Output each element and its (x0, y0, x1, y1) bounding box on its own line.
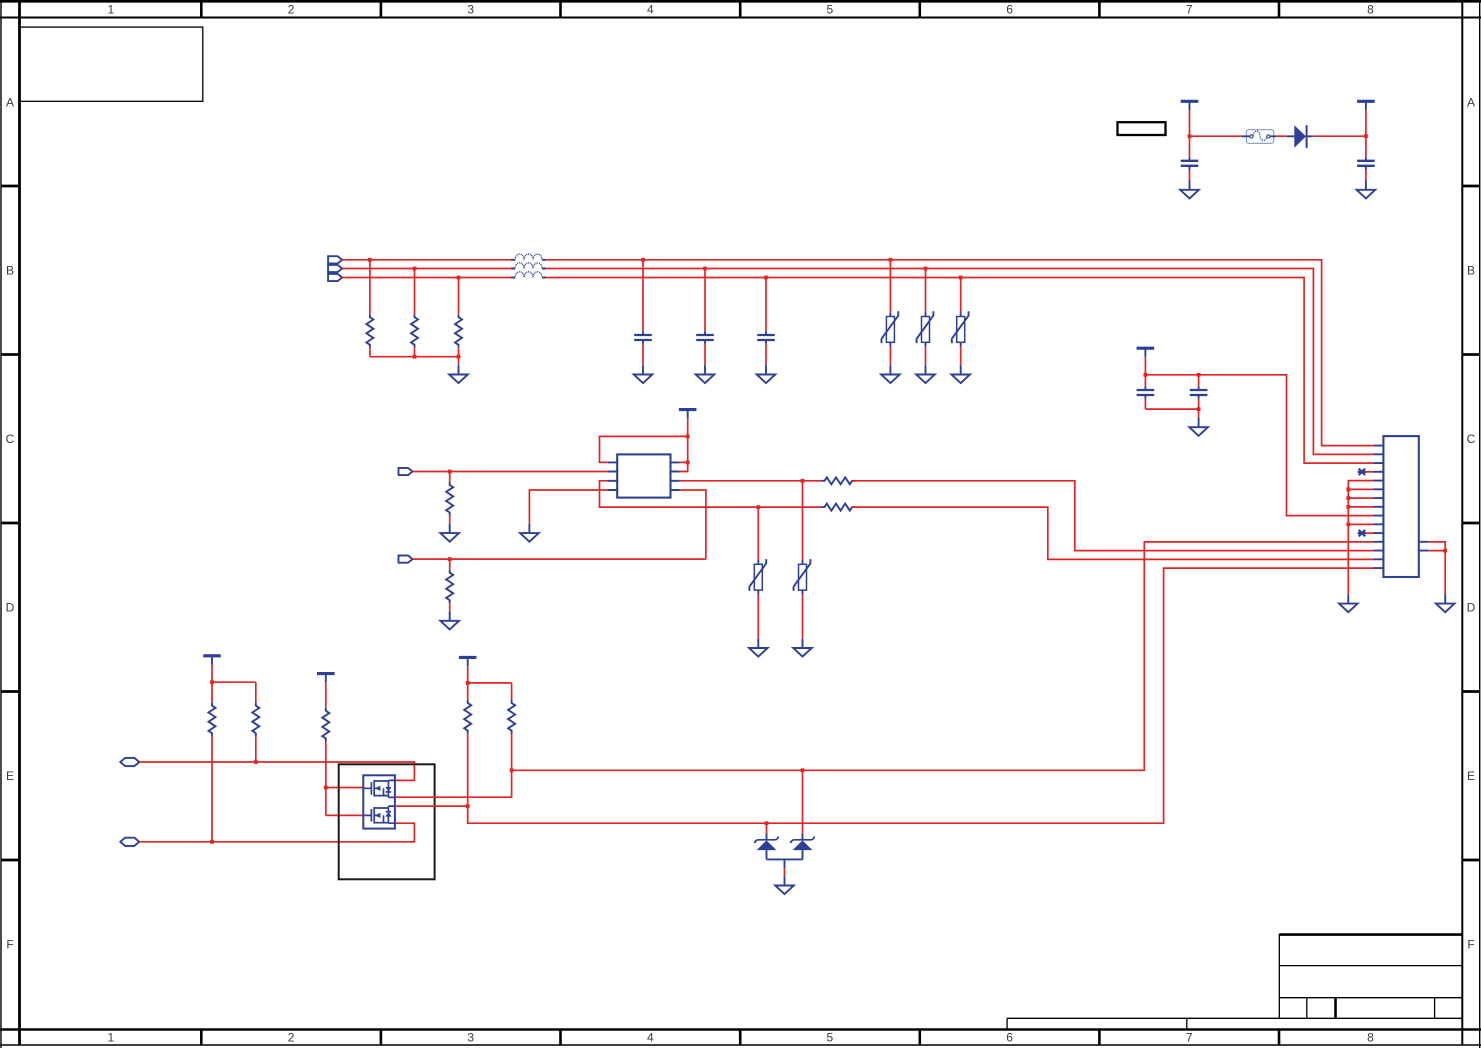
varistor RV2 (916, 311, 933, 347)
op-amp U1 body (617, 454, 670, 497)
junction (1443, 549, 1447, 553)
ground (1357, 181, 1376, 199)
inductor L1 (511, 254, 546, 260)
junction (801, 479, 805, 483)
wire phase3 (546, 278, 1373, 464)
wire phase1 (546, 260, 1373, 446)
resistor R5 (822, 477, 856, 484)
svg-text:8: 8 (1367, 1031, 1374, 1045)
ground (1189, 418, 1208, 436)
junction (210, 680, 214, 684)
wire (802, 770, 804, 833)
label box (1118, 122, 1166, 135)
wire (757, 507, 759, 560)
junction (1346, 496, 1350, 500)
diode D1 (1287, 125, 1313, 148)
wire phase1 (342, 259, 511, 261)
wire (1144, 375, 1146, 387)
junction (703, 267, 707, 271)
U1 pin stubs (608, 462, 680, 490)
svg-text:B: B (6, 264, 14, 278)
varistor RV3 (952, 311, 969, 347)
nc X pin11 (1358, 530, 1366, 536)
wire (687, 418, 689, 436)
junction (368, 258, 372, 262)
wire (255, 682, 257, 702)
ground (916, 365, 935, 383)
wire (1428, 550, 1445, 552)
wire (449, 472, 451, 482)
wire pin3 right out1 (680, 480, 822, 482)
power symbol VIN-A right (1357, 101, 1375, 110)
inductor L3 (511, 272, 546, 278)
oval port E1 (120, 758, 139, 766)
junction (889, 258, 893, 262)
ground (449, 365, 468, 383)
ground (757, 365, 776, 383)
port P3 (328, 274, 342, 281)
resistor R4 (446, 482, 453, 516)
junction (764, 276, 768, 280)
wire to J1-9 (1145, 375, 1373, 516)
junction (686, 461, 690, 465)
wire (413, 558, 706, 560)
wire out1 to J1-13 (852, 481, 1374, 551)
wire (458, 357, 460, 366)
junction (254, 760, 258, 764)
wire tvs common (767, 859, 803, 868)
junction (413, 355, 417, 359)
junction (1188, 134, 1192, 138)
wire pin3 left to out2 (600, 481, 822, 507)
wire (1348, 488, 1373, 490)
junction (457, 276, 461, 280)
junction (448, 557, 452, 561)
wire (802, 481, 804, 560)
junction (466, 804, 470, 808)
wire (642, 344, 644, 366)
power symbol V1 (203, 656, 221, 665)
wire (766, 823, 768, 833)
fuse F1 (1242, 130, 1277, 144)
ground (1339, 594, 1358, 612)
connector J1 body (1383, 436, 1418, 577)
transistor Q1 Q2 module (363, 775, 395, 828)
svg-text:8: 8 (1367, 3, 1374, 17)
wire sense1 long (512, 542, 1374, 770)
junction (686, 435, 690, 439)
capacitor C3 (634, 331, 652, 343)
wire gate2 (326, 814, 364, 816)
svg-text:3: 3 (467, 1031, 474, 1045)
capacitor C1 (1181, 157, 1199, 169)
wire gnd bus J1 (1348, 481, 1373, 595)
svg-text:5: 5 (827, 1031, 834, 1045)
diode D2 tvs (755, 833, 779, 859)
wire (765, 278, 767, 332)
svg-text:7: 7 (1186, 3, 1193, 17)
junction (1346, 522, 1350, 526)
varistor RV5 (793, 559, 810, 595)
wire (1198, 409, 1200, 418)
wire (960, 347, 962, 365)
svg-text:F: F (6, 938, 13, 952)
power symbol VCC-U1 (679, 410, 697, 419)
nc X pin4 (1358, 469, 1366, 475)
wire (1198, 399, 1200, 409)
wire (642, 260, 644, 332)
wire (414, 348, 416, 357)
J1 right pin stubs (1419, 542, 1429, 551)
ground (440, 612, 459, 630)
wire (468, 682, 512, 684)
wire (449, 516, 451, 524)
oval port E2 (120, 838, 139, 846)
wire (1365, 136, 1367, 157)
port P4 (399, 468, 413, 475)
wire (369, 260, 371, 314)
svg-text:4: 4 (647, 3, 654, 17)
ground (775, 876, 794, 894)
svg-text:2: 2 (288, 1031, 295, 1045)
wire sense2 long (468, 568, 1374, 823)
wire (1189, 170, 1191, 181)
port P1 (328, 256, 342, 263)
wire (680, 436, 688, 471)
wire (784, 868, 786, 876)
wire J1 right (1428, 542, 1445, 551)
port P5 (399, 556, 413, 563)
wire (1145, 408, 1198, 410)
ground (951, 365, 970, 383)
varistor RV4 (749, 559, 766, 595)
resistor R6 (822, 504, 856, 511)
junction (641, 258, 645, 262)
resistor R12 (508, 700, 515, 734)
svg-text:D: D (6, 601, 15, 615)
wire (467, 683, 469, 700)
wire (413, 471, 608, 473)
wire (1366, 471, 1374, 473)
varistor RV1 (881, 311, 898, 347)
wire gate net (325, 741, 327, 815)
wire (211, 736, 213, 842)
resistor R7 (446, 570, 453, 604)
junction (510, 768, 514, 772)
svg-text:C: C (6, 432, 15, 446)
junction (1144, 373, 1148, 377)
wire phase2 (342, 268, 511, 270)
resistor R3 (455, 314, 462, 348)
svg-text:A: A (1467, 95, 1475, 109)
svg-text:6: 6 (1006, 1031, 1013, 1045)
resistor R1 (366, 314, 373, 348)
junction (959, 276, 963, 280)
junction (324, 786, 328, 790)
junction (1364, 134, 1368, 138)
svg-text:7: 7 (1186, 1031, 1193, 1045)
wire (255, 736, 257, 762)
capacitor C6 (1137, 386, 1155, 398)
svg-text:2: 2 (288, 3, 295, 17)
wire (1365, 110, 1367, 136)
ground (1180, 181, 1199, 199)
wire (212, 681, 256, 683)
wire (1277, 135, 1287, 137)
wire phase3 (342, 277, 511, 279)
power symbol VDD (1137, 348, 1155, 357)
wire (802, 595, 804, 639)
wire (511, 683, 513, 700)
wire (960, 278, 962, 313)
svg-text:1: 1 (108, 1031, 115, 1045)
wire (211, 682, 213, 702)
wire (325, 682, 327, 708)
wire (1348, 523, 1373, 525)
wire (704, 344, 706, 366)
svg-text:A: A (6, 95, 14, 109)
wire (211, 665, 213, 683)
wire (1189, 110, 1191, 136)
wire (925, 269, 927, 313)
wire (1365, 170, 1367, 181)
wire (1348, 497, 1373, 499)
junction (756, 505, 760, 509)
svg-text:E: E (6, 769, 14, 783)
svg-text:C: C (1467, 432, 1476, 446)
capacitor C4 (696, 331, 714, 343)
wire (1144, 357, 1146, 375)
wire (889, 260, 891, 312)
wire (765, 344, 767, 366)
junction (413, 267, 417, 271)
junction (801, 768, 805, 772)
inductor L2 (511, 263, 546, 269)
wire (467, 666, 469, 683)
junction (466, 681, 470, 685)
wire out2 to J1-14 (852, 507, 1374, 559)
wire (889, 347, 891, 365)
wire (704, 269, 706, 332)
wire (1144, 399, 1146, 409)
wire gate1 (326, 787, 364, 789)
svg-text:4: 4 (647, 1031, 654, 1045)
junction (1346, 505, 1350, 509)
title block (1007, 934, 1462, 1030)
ground (696, 365, 715, 383)
junction (457, 355, 461, 359)
power symbol V2 (317, 674, 335, 683)
ground (881, 365, 900, 383)
wire (458, 348, 460, 357)
ground (1436, 594, 1455, 612)
wire (757, 595, 759, 639)
power symbol VIN-A left (1181, 101, 1199, 110)
ground (749, 639, 768, 657)
junction (924, 267, 928, 271)
wire (680, 461, 688, 463)
resistor R8 (209, 703, 216, 737)
ground (634, 365, 653, 383)
wire (369, 348, 371, 357)
wire (1366, 532, 1374, 534)
junction (1197, 407, 1201, 411)
svg-text:3: 3 (467, 3, 474, 17)
junction (1197, 373, 1201, 377)
wire gnd bus (370, 356, 459, 358)
capacitor C5 (757, 331, 775, 343)
wire source1 (395, 770, 512, 797)
svg-text:1: 1 (108, 3, 115, 17)
svg-text:D: D (1467, 601, 1476, 615)
wire pin4 left (529, 490, 608, 524)
junction (765, 821, 769, 825)
wire (1189, 136, 1191, 157)
wire (1198, 375, 1200, 387)
wire (1190, 135, 1243, 137)
wire (1444, 551, 1446, 595)
junction (210, 840, 214, 844)
ground (793, 639, 812, 657)
ground (520, 524, 539, 542)
svg-text:6: 6 (1006, 3, 1013, 17)
svg-text:B: B (1467, 264, 1475, 278)
wire (458, 278, 460, 315)
wire (139, 762, 414, 780)
wire (925, 347, 927, 365)
resistor R11 (464, 700, 471, 734)
power symbol V3 (459, 657, 477, 666)
resistor R10 (322, 708, 329, 742)
junction (448, 470, 452, 474)
resistor R2 (411, 314, 418, 348)
svg-text:5: 5 (827, 3, 834, 17)
wire (139, 823, 414, 842)
wire (449, 559, 451, 570)
capacitor C7 (1190, 386, 1208, 398)
J1 left pin stubs (1374, 446, 1384, 568)
sheet note box (20, 27, 203, 101)
port P2 (328, 265, 342, 272)
wire drain2 (395, 805, 468, 807)
wire (449, 603, 451, 611)
module outline (339, 764, 435, 879)
wire pin4 right (680, 490, 706, 559)
wire pin1 loop (600, 436, 688, 462)
resistor R9 (252, 703, 259, 737)
capacitor C2 (1357, 157, 1375, 169)
wire (414, 269, 416, 315)
junction (1346, 487, 1350, 491)
ground (440, 524, 459, 542)
wire (1313, 135, 1366, 137)
diode D3 tvs (791, 833, 815, 859)
wire phase2 (546, 269, 1373, 455)
svg-text:E: E (1467, 769, 1475, 783)
wire (1348, 506, 1373, 508)
svg-text:F: F (1467, 938, 1474, 952)
